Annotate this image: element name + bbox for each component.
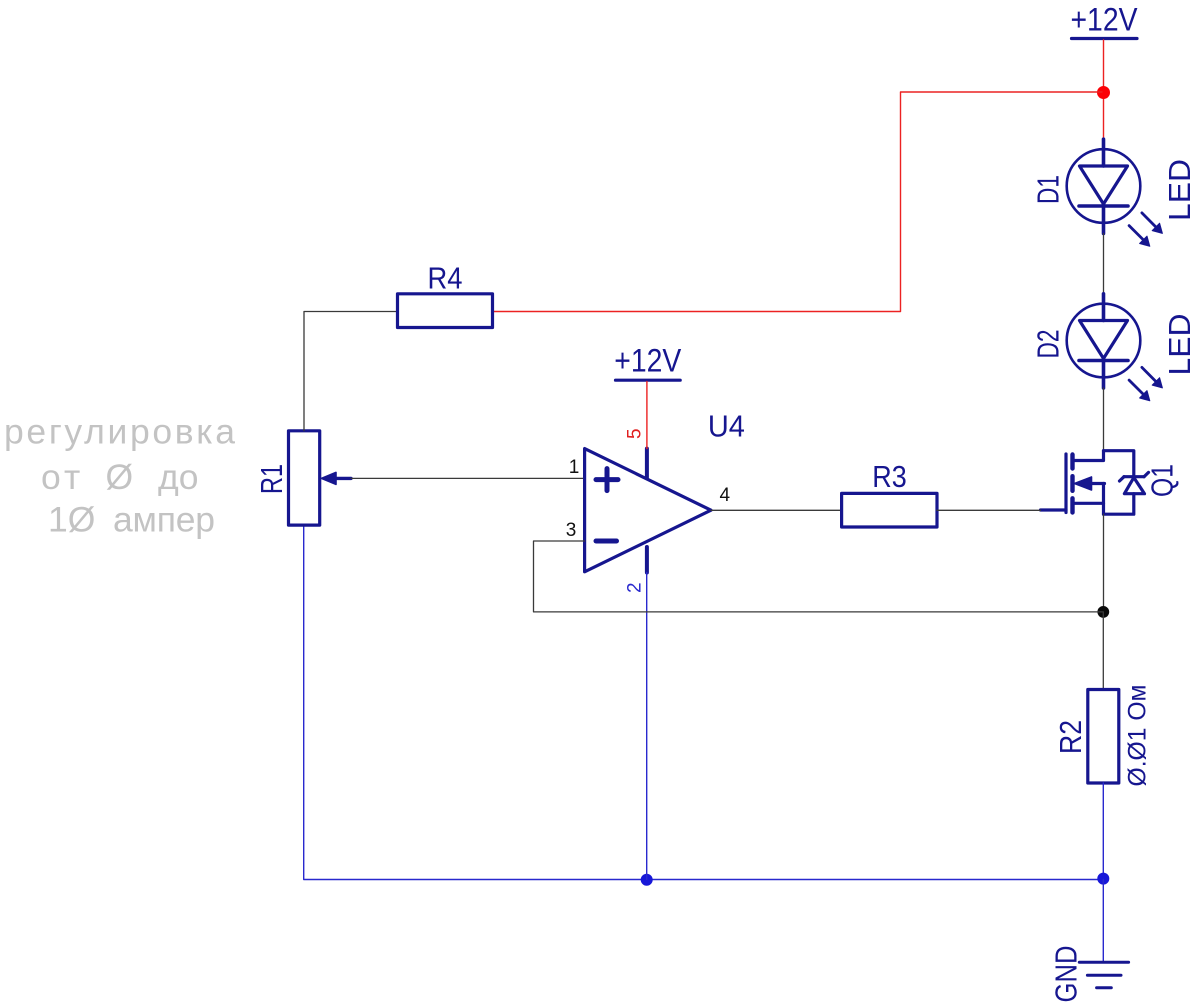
ground GND [1079, 962, 1128, 987]
junction rail/pin2 (blue dot) [641, 874, 653, 886]
wire R4 to +12V rail (red) [493, 92, 1102, 312]
junction source node (black dot) [1097, 606, 1109, 618]
svg-text:2: 2 [625, 582, 646, 593]
wire wiper to op-amp pin 1 [351, 477, 585, 479]
svg-text:+12V: +12V [614, 342, 682, 378]
svg-text:Q1: Q1 [1145, 464, 1180, 497]
svg-text:+12V: +12V [1071, 2, 1139, 38]
wire pin 3 feedback to source node [534, 541, 1104, 612]
wire +12V vertical (red) [1103, 40, 1105, 140]
transistor Q1 (N-MOSFET with body diode) [1041, 451, 1149, 515]
svg-text:R3: R3 [872, 459, 907, 494]
wire R1 top to R4 left [304, 312, 398, 431]
svg-text:U4: U4 [708, 408, 745, 443]
wire pin 2 to rail (blue) [646, 573, 648, 880]
wire op-amp output to R3 [711, 509, 842, 511]
op-amp U4 [585, 449, 711, 573]
svg-text:4: 4 [720, 485, 731, 506]
LED D1 [1067, 139, 1163, 246]
note регулировка от 0 до 10 ампер [4, 412, 235, 540]
svg-text:Ø: Ø [106, 457, 134, 497]
LED D2 [1067, 294, 1163, 401]
svg-text:от: от [41, 457, 84, 497]
resistor R4 [398, 294, 493, 328]
junction rail/R2 (blue dot) [1097, 873, 1109, 885]
svg-text:LED: LED [1162, 159, 1197, 221]
svg-text:до: до [158, 457, 198, 497]
power +12V (op-amp) [614, 342, 682, 380]
wire rail to GND (blue) [1102, 880, 1104, 962]
wire D1 cathode to D2 anode [1103, 234, 1105, 294]
svg-text:D2: D2 [1031, 330, 1066, 359]
svg-text:Ø.Ø1 Ом: Ø.Ø1 Ом [1124, 685, 1152, 787]
potentiometer R1 [289, 431, 320, 525]
svg-text:регулировка: регулировка [4, 412, 235, 452]
junction +12V node (red dot) [1097, 86, 1110, 99]
wire +12V to pin 5 (red) [646, 382, 648, 449]
wire R2 to ground rail (blue) [1102, 783, 1104, 880]
svg-text:GND: GND [1049, 946, 1084, 1003]
svg-text:ампер: ампер [113, 500, 215, 540]
wire Q1 source to node [1103, 514, 1105, 612]
svg-text:1Ø: 1Ø [48, 500, 95, 540]
svg-text:R2: R2 [1053, 720, 1088, 754]
wiper arrow of R1 [322, 472, 352, 484]
resistor R3 [842, 493, 937, 527]
svg-text:3: 3 [566, 520, 577, 541]
svg-text:LED: LED [1162, 314, 1197, 376]
svg-text:1: 1 [569, 457, 580, 478]
svg-text:5: 5 [625, 428, 646, 439]
wire R3 to Q1 gate [937, 509, 1041, 511]
wire bottom rail (blue) [304, 525, 1104, 879]
wire D2 cathode to Q1 drain [1103, 388, 1105, 451]
svg-text:D1: D1 [1031, 175, 1066, 204]
power +12V (top right) [1071, 2, 1139, 39]
svg-text:R1: R1 [254, 464, 289, 494]
resistor R2 [1088, 612, 1119, 783]
svg-text:R4: R4 [428, 261, 463, 296]
